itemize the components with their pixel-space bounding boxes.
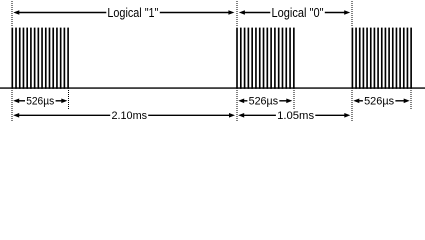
dimension arrow: Logical 1 span <box>13 5 234 20</box>
signal baseline <box>0 87 425 89</box>
svg-text:526µs: 526µs <box>364 96 394 108</box>
dimension arrow: 1.05ms period <box>238 110 350 122</box>
dimension arrow: 526us burst 2 width <box>238 96 292 108</box>
svg-text:Logical "0": Logical "0" <box>272 5 324 20</box>
dotted boundary line at start of logical 1 (top) <box>11 1 13 27</box>
dimension arrow: 2.10ms period <box>13 110 235 122</box>
dotted boundary line at end of logical 0 (top) <box>351 1 353 27</box>
burst 3 carrier pulses (526us) <box>352 28 412 89</box>
svg-text:1.05ms: 1.05ms <box>277 110 314 122</box>
dimension arrow: Logical 0 span <box>239 5 350 20</box>
svg-text:526µs: 526µs <box>249 96 279 108</box>
dimension arrow: 526us burst 3 width <box>353 96 409 108</box>
dotted boundary line between logical 1 and logical 0 (top) <box>236 1 238 27</box>
dimension arrow: 526us burst 1 width <box>13 96 67 108</box>
dotted boundary line at end of burst 1 <box>68 90 70 109</box>
burst 1 carrier pulses (526us) <box>11 28 68 89</box>
svg-text:Logical "1": Logical "1" <box>107 5 158 20</box>
burst 2 carrier pulses (526us) <box>236 28 295 89</box>
dotted boundary line at start of logical 1 (bottom) <box>11 90 13 122</box>
svg-text:526µs: 526µs <box>26 96 54 108</box>
svg-text:2.10ms: 2.10ms <box>112 110 148 122</box>
dotted boundary line at end of burst 3 <box>410 90 412 109</box>
dotted boundary line at end of burst 2 <box>293 90 295 109</box>
dotted boundary line at end of logical 0 (bottom) <box>351 90 353 122</box>
dotted boundary line between logical 1 and logical 0 (bottom) <box>236 90 238 122</box>
